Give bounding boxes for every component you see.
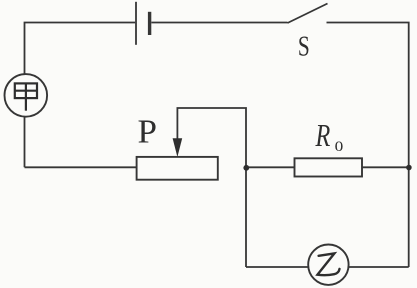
svg-text:R: R [315,119,331,154]
svg-text:P: P [138,114,157,150]
svg-text:S: S [298,29,310,62]
svg-text:0: 0 [335,139,344,154]
